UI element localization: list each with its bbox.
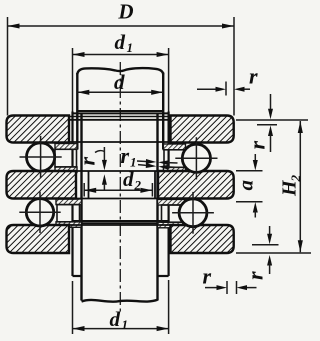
- shaft middle step vertical right: [154, 171, 156, 199]
- ball row2 right: [179, 199, 207, 227]
- top washer bottom face line across gap: [69, 141, 171, 143]
- sleeve outer wall left: [71, 112, 73, 277]
- svg-text:r: r: [245, 141, 270, 150]
- sleeve bottom end face right: [158, 275, 169, 277]
- centerline axis: [119, 62, 121, 313]
- bottom housing washer right section: [171, 225, 234, 253]
- cage row1 left lower strip: [55, 167, 77, 173]
- svg-text:2: 2: [288, 175, 303, 183]
- cage row2 left lower strip: [56, 222, 82, 228]
- svg-text:r: r: [249, 64, 258, 89]
- cage row1 left upper strip: [55, 144, 77, 150]
- svg-text:d: d: [123, 167, 134, 191]
- svg-text:a: a: [234, 180, 258, 191]
- middle washer top face line across gap: [76, 170, 158, 172]
- shaft lower left wall: [80, 113, 82, 300]
- shaft middle step vertical left: [88, 171, 90, 199]
- cage row2 right upper strip: [158, 199, 185, 205]
- dimension H2: [236, 252, 311, 254]
- dimension d1 top: [72, 48, 74, 112]
- svg-text:d: d: [115, 30, 126, 54]
- dimension d1 bottom: [72, 281, 74, 334]
- dimension d2: [83, 183, 85, 197]
- dimension D: [7, 17, 9, 116]
- ball row2 left: [26, 199, 53, 226]
- svg-text:D: D: [117, 0, 133, 24]
- dimension d: [77, 91, 163, 93]
- ball row1 right: [182, 144, 210, 172]
- middle shaft washer right section: [158, 171, 234, 199]
- bottom washer top face line across gap: [69, 224, 171, 226]
- shaft upper journal right wall: [162, 73, 164, 150]
- svg-text:1: 1: [122, 317, 129, 332]
- svg-text:r: r: [121, 143, 130, 168]
- cage row2 left pocket: [57, 205, 80, 222]
- top washer top face line across gap: [69, 116, 171, 118]
- top housing washer left section: [7, 116, 70, 143]
- svg-text:r: r: [243, 271, 268, 280]
- dimension r vertical at washer top right: [236, 119, 308, 121]
- cage row2 right lower strip: [158, 222, 185, 228]
- cage row2 left upper strip: [56, 199, 82, 205]
- sleeve bottom end face left: [73, 275, 82, 277]
- cage row2 right pocket: [162, 205, 184, 222]
- dimension r at sleeve bottom, horizontal: [226, 281, 228, 294]
- cage row1 right upper strip: [163, 144, 185, 150]
- sleeve lower step line lower: [73, 222, 169, 224]
- shaft shoulder step line upper: [77, 110, 163, 112]
- middle shaft washer left section: [7, 171, 77, 199]
- bottom housing washer left section: [7, 225, 70, 253]
- svg-text:r: r: [75, 157, 100, 166]
- cage row1 right lower strip: [163, 167, 185, 173]
- dimension r at washer bottom right, vertical: [252, 244, 279, 246]
- dimension r at top right corner: [225, 82, 227, 96]
- dimension a: [236, 170, 263, 172]
- cage row1 left pocket: [55, 149, 77, 167]
- middle washer bottom face line across gap: [76, 198, 158, 200]
- cage row1 right pocket: [164, 150, 186, 168]
- top housing washer right section: [171, 116, 234, 143]
- svg-text:r: r: [203, 264, 212, 289]
- sleeve top face line: [73, 112, 169, 114]
- svg-text:2: 2: [134, 178, 142, 193]
- svg-text:d: d: [114, 70, 125, 94]
- ball row1 left: [26, 143, 54, 171]
- sleeve lower step line upper: [73, 220, 169, 222]
- svg-text:1: 1: [127, 40, 134, 55]
- shaft lower right wall: [156, 113, 158, 300]
- svg-text:d: d: [110, 307, 121, 331]
- shaft bottom break line: [82, 300, 158, 302]
- top washer bore face line: [69, 119, 171, 121]
- shaft upper journal left wall: [76, 73, 78, 150]
- shaft upper journal break line: [77, 68, 163, 74]
- sleeve outer wall right: [168, 112, 170, 277]
